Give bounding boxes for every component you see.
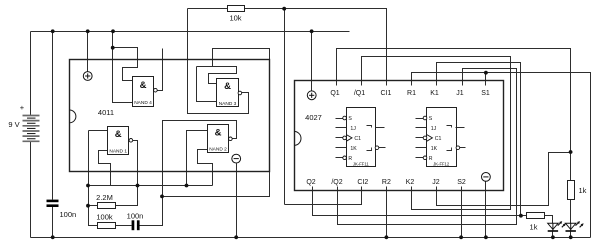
svg-text:4027: 4027 xyxy=(305,113,322,122)
svg-text:NAND 1: NAND 1 xyxy=(109,148,127,154)
svg-text:JK-FF11: JK-FF11 xyxy=(353,162,369,167)
svg-text:1K: 1K xyxy=(431,146,438,152)
svg-text:K1: K1 xyxy=(430,90,439,97)
svg-text:R1: R1 xyxy=(407,90,416,97)
svg-text:CI2: CI2 xyxy=(357,179,368,186)
svg-text:2.2M: 2.2M xyxy=(96,193,113,202)
svg-text:100n: 100n xyxy=(127,211,144,220)
svg-text:C1: C1 xyxy=(435,136,442,142)
svg-text:Q2: Q2 xyxy=(306,179,315,186)
svg-text:4011: 4011 xyxy=(98,108,114,117)
svg-text:&: & xyxy=(115,129,122,140)
svg-text:J1: J1 xyxy=(456,90,464,97)
svg-text:100n: 100n xyxy=(60,210,77,219)
svg-text:/Q2: /Q2 xyxy=(331,179,342,186)
svg-text:S2: S2 xyxy=(457,179,466,186)
svg-text:1k: 1k xyxy=(530,222,538,231)
svg-text:1J: 1J xyxy=(431,126,437,132)
svg-text:K2: K2 xyxy=(406,179,415,186)
svg-text:9 V: 9 V xyxy=(8,120,19,129)
svg-text:CI1: CI1 xyxy=(381,90,392,97)
svg-text:NAND 4: NAND 4 xyxy=(134,100,152,106)
svg-text:&: & xyxy=(215,128,222,139)
svg-text:NAND 3: NAND 3 xyxy=(219,101,237,107)
svg-text:R2: R2 xyxy=(382,179,391,186)
svg-text:S: S xyxy=(348,116,352,122)
svg-text:J2: J2 xyxy=(432,179,440,186)
svg-text:&: & xyxy=(140,80,147,91)
svg-text:1k: 1k xyxy=(579,186,587,195)
svg-text:&: & xyxy=(224,81,231,92)
svg-text:1K: 1K xyxy=(350,146,357,152)
svg-text:S: S xyxy=(429,116,433,122)
svg-text:JK-FF12: JK-FF12 xyxy=(433,162,450,167)
svg-text:/Q1: /Q1 xyxy=(354,90,365,97)
svg-text:Q1: Q1 xyxy=(330,90,339,97)
svg-text:C1: C1 xyxy=(354,136,361,142)
svg-text:1J: 1J xyxy=(350,126,356,132)
svg-text:NAND 2: NAND 2 xyxy=(209,146,227,152)
svg-text:100k: 100k xyxy=(96,213,113,222)
svg-text:R: R xyxy=(348,156,352,162)
svg-text:10k: 10k xyxy=(229,13,241,22)
svg-text:+: + xyxy=(20,103,25,112)
svg-text:S1: S1 xyxy=(481,90,490,97)
